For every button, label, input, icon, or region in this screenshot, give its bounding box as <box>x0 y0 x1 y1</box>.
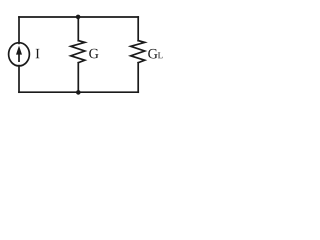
label I (current source value) <box>36 49 40 58</box>
wire: top wire (top node net) <box>19 16 138 18</box>
junction dot: bottom node <box>76 90 81 95</box>
wire: middle branch lower segment <box>77 63 79 92</box>
label GL (load conductance L subscript) <box>158 52 163 58</box>
current source arrow tail <box>18 54 20 63</box>
wire: left branch upper segment <box>18 17 20 43</box>
resistor GL (zigzag) <box>131 41 145 63</box>
wire: bottom wire (bottom node net) <box>19 91 138 93</box>
wire: middle branch upper segment <box>77 17 79 41</box>
label G (middle conductance value) <box>89 49 98 59</box>
wire: right branch upper segment <box>137 17 139 41</box>
label GL (load conductance G value) <box>148 49 157 59</box>
junction dot: top node <box>76 15 81 20</box>
current source I (circle) <box>9 43 30 66</box>
wire: left branch lower segment <box>18 66 20 93</box>
current source arrow (inside circle, pointing up) <box>16 46 22 55</box>
resistor G (zigzag) <box>71 41 85 63</box>
wire: right branch lower segment <box>137 63 139 92</box>
